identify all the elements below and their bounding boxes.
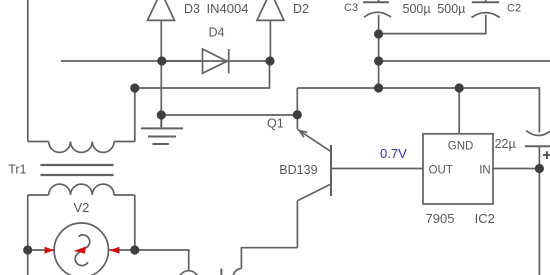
ground	[141, 115, 183, 144]
svg-text:Q1: Q1	[267, 117, 284, 131]
label plus 22u	[543, 151, 550, 159]
capacitor bottom curved plate	[233, 269, 241, 275]
capacitor 22u	[525, 131, 550, 169]
transformer Tr1 secondary winding	[28, 184, 135, 195]
node V2 right	[130, 245, 139, 254]
svg-text:D4: D4	[209, 26, 225, 40]
svg-text:500µ: 500µ	[437, 2, 465, 16]
svg-text:IC2: IC2	[475, 211, 495, 226]
svg-text:D2: D2	[293, 2, 309, 16]
svg-text:C2: C2	[507, 2, 521, 14]
svg-text:V2: V2	[74, 200, 90, 215]
wire node at 135,88 to D2 bottom	[135, 61, 270, 88]
diode D3	[148, 0, 175, 61]
wire V2 right lead	[109, 249, 135, 251]
V2 arrow left lead	[45, 247, 55, 254]
svg-text:0.7V: 0.7V	[380, 146, 407, 161]
capacitor bottom straight plate	[220, 269, 222, 275]
capacitor C3	[363, 0, 391, 34]
wire node B to Q1 collector rail	[161, 114, 297, 116]
node D4 left	[157, 56, 166, 65]
lamp circle bottom	[178, 271, 199, 275]
wire rail y88	[297, 88, 539, 133]
wire bottom node rail	[135, 250, 189, 271]
wire secondary left lead down	[27, 195, 29, 250]
wire C3 lead down	[378, 34, 380, 88]
node V2 left	[23, 245, 32, 254]
node rail88 C3	[374, 83, 383, 92]
node primary right	[130, 83, 139, 92]
node rail88 GND pin	[455, 83, 464, 92]
transistor Q1	[297, 115, 331, 248]
wire Q1 emitter to bottom components	[241, 248, 297, 269]
wire left rail bottom	[27, 250, 29, 275]
wire right rail bottom	[538, 169, 540, 275]
diode D2	[257, 0, 284, 61]
wire left rail top	[27, 0, 29, 142]
IC2 box	[423, 134, 493, 204]
wire D3 anode down to ground node	[160, 61, 162, 115]
svg-text:22µ: 22µ	[495, 137, 516, 151]
svg-text:IN4004: IN4004	[207, 1, 249, 16]
node IN pin	[535, 164, 544, 173]
node C2 join	[374, 29, 383, 38]
svg-text:GND: GND	[448, 141, 474, 153]
wire V2 left lead	[28, 249, 54, 251]
capacitor C2	[379, 0, 500, 34]
svg-text:IN: IN	[479, 165, 491, 177]
wire IN pin	[493, 168, 539, 170]
V2 sine squiggle top hook	[79, 235, 90, 248]
wire secondary right lead down	[134, 195, 136, 250]
svg-text:BD139: BD139	[279, 163, 317, 177]
node D4 right	[265, 56, 274, 65]
diode D4	[61, 49, 270, 73]
svg-text:OUT: OUT	[429, 165, 453, 177]
node rail61	[374, 56, 383, 65]
V2 arrow center	[74, 247, 86, 254]
svg-text:7905: 7905	[426, 211, 455, 226]
V2 arrow right lead	[109, 247, 119, 254]
wire rail corner down to Q1 node	[296, 88, 298, 115]
transformer Tr1 core	[41, 165, 114, 175]
svg-text:500µ: 500µ	[403, 2, 431, 16]
node Q1 top	[293, 110, 302, 119]
transformer Tr1 primary winding	[28, 142, 135, 153]
V2 sine squiggle bottom hook	[75, 253, 88, 266]
wire +rail y61 to right edge	[379, 60, 550, 62]
source V2 circle	[54, 223, 108, 275]
wire Q1 base to OUT pin	[331, 168, 423, 170]
node ground join	[157, 110, 166, 119]
wire primary right lead up	[134, 88, 136, 142]
wire GND pin	[458, 88, 460, 134]
svg-text:D3: D3	[184, 2, 200, 16]
svg-text:Tr1: Tr1	[8, 163, 26, 177]
svg-text:C3: C3	[344, 2, 358, 14]
